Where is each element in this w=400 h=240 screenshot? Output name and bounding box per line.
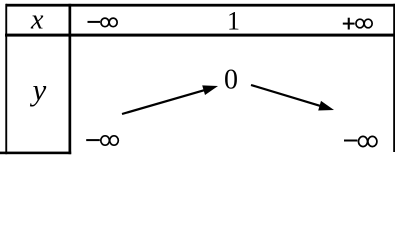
- svg-text:x: x: [30, 5, 44, 36]
- svg-text:y: y: [30, 72, 47, 107]
- svg-text:1: 1: [227, 7, 240, 36]
- svg-text:0: 0: [224, 65, 238, 96]
